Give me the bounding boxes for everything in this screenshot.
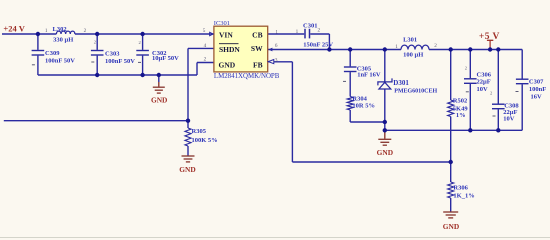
svg-text:5: 5 — [203, 28, 206, 34]
svg-text:SHDN: SHDN — [219, 45, 240, 54]
svg-text:+24 V: +24 V — [3, 24, 25, 34]
svg-text:2: 2 — [490, 91, 492, 96]
svg-text:PMEG6010CEH: PMEG6010CEH — [394, 89, 437, 95]
svg-text:1: 1 — [395, 44, 398, 50]
svg-text:C309: C309 — [45, 50, 60, 57]
svg-text:2: 2 — [139, 40, 141, 45]
svg-text:SW: SW — [251, 44, 263, 53]
svg-text:3: 3 — [275, 58, 278, 64]
svg-text:2: 2 — [318, 28, 321, 34]
svg-text:+5 V: +5 V — [479, 32, 500, 42]
svg-text:16V: 16V — [531, 94, 543, 101]
svg-text:C301: C301 — [303, 22, 317, 29]
svg-text:R502: R502 — [453, 98, 467, 105]
svg-text:VIN: VIN — [219, 30, 233, 39]
svg-text:2: 2 — [204, 57, 207, 63]
svg-text:1: 1 — [45, 28, 48, 34]
svg-text:2: 2 — [465, 66, 467, 71]
svg-text:2: 2 — [84, 28, 87, 34]
svg-text:1%: 1% — [456, 112, 466, 119]
svg-text:150nF 25V: 150nF 25V — [303, 41, 333, 48]
svg-text:C306: C306 — [477, 71, 492, 78]
svg-text:GND: GND — [443, 222, 459, 231]
svg-text:GND: GND — [219, 60, 236, 69]
svg-text:10µF 50V: 10µF 50V — [152, 55, 179, 62]
svg-text:100 µH: 100 µH — [403, 52, 423, 59]
svg-text:1: 1 — [296, 29, 299, 35]
svg-text:2: 2 — [434, 43, 437, 49]
svg-text:100nF: 100nF — [529, 86, 546, 93]
svg-text:100nF 50V: 100nF 50V — [105, 58, 135, 65]
svg-text:L301: L301 — [403, 37, 417, 44]
svg-text:GND: GND — [151, 96, 167, 105]
svg-text:IC301: IC301 — [214, 20, 230, 27]
svg-text:4: 4 — [204, 43, 207, 49]
svg-text:22µF: 22µF — [477, 79, 491, 86]
svg-text:10R 5%: 10R 5% — [352, 103, 375, 110]
svg-text:6: 6 — [275, 43, 278, 49]
svg-text:D301: D301 — [393, 79, 409, 87]
svg-text:100K 5%: 100K 5% — [192, 137, 218, 144]
svg-text:CB: CB — [252, 30, 262, 39]
svg-text:10V: 10V — [503, 116, 515, 123]
svg-text:GND: GND — [377, 148, 393, 157]
svg-text:1K_1%: 1K_1% — [453, 193, 474, 200]
svg-text:C307: C307 — [529, 79, 544, 86]
svg-text:2: 2 — [94, 39, 96, 44]
svg-text:1nF 16V: 1nF 16V — [357, 72, 381, 79]
svg-text:R305: R305 — [192, 128, 207, 135]
svg-text:R306: R306 — [453, 184, 468, 191]
svg-text:100nF 50V: 100nF 50V — [45, 57, 75, 64]
svg-text:FB: FB — [253, 60, 263, 69]
svg-text:L302: L302 — [53, 26, 67, 33]
svg-text:1: 1 — [275, 29, 278, 35]
svg-text:LM2841XQMK/NOPB: LM2841XQMK/NOPB — [214, 73, 280, 80]
svg-text:GND: GND — [179, 165, 195, 174]
svg-text:C303: C303 — [105, 51, 120, 58]
svg-text:330 µH: 330 µH — [53, 36, 73, 43]
svg-text:R304: R304 — [352, 96, 367, 103]
svg-text:10V: 10V — [477, 86, 489, 93]
